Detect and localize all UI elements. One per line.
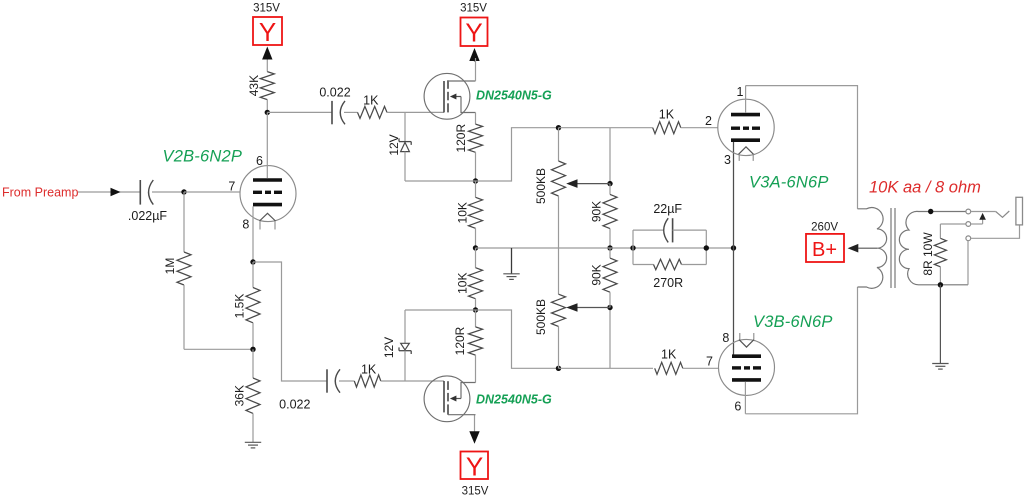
wire 1K to MOSFET gate (upper) — [387, 111, 444, 113]
mosfet U1 DN2540N5-G (upper) — [424, 73, 475, 119]
V2B pin 8 label — [242, 217, 249, 231]
label 90K (lower) — [590, 264, 604, 285]
label 22µF — [653, 202, 682, 216]
svg-text:Y: Y — [259, 17, 276, 47]
wire cap to 1K (upper) — [344, 111, 358, 113]
svg-text:6: 6 — [256, 154, 263, 168]
svg-text:315V: 315V — [253, 3, 280, 15]
V3B grid — [732, 366, 761, 369]
svg-text:120R: 120R — [454, 124, 468, 153]
resistor 1M — [177, 192, 191, 349]
V2B anode plate — [253, 178, 282, 182]
resistor 43K — [260, 72, 274, 113]
junction input node — [181, 189, 186, 194]
transformer primary winding — [858, 208, 887, 289]
label 12V (upper) — [387, 134, 401, 155]
jack tip contact — [971, 211, 1010, 217]
jack terminal 3 (sleeve) — [966, 236, 971, 241]
svg-text:90K: 90K — [590, 201, 604, 222]
label 1K (V3B grid) — [661, 348, 677, 362]
svg-text:From Preamp: From Preamp — [2, 186, 78, 200]
label V3A-6N6P — [749, 173, 829, 191]
svg-text:315V: 315V — [462, 486, 489, 498]
zener diode 12V (upper) — [399, 112, 411, 181]
svg-text:8R 10W: 8R 10W — [921, 232, 935, 276]
triode V3B envelope — [719, 339, 775, 395]
svg-text:7: 7 — [706, 354, 713, 368]
arrow to 315V rail (top-middle) — [469, 48, 479, 62]
svg-text:22µF: 22µF — [653, 202, 682, 216]
wire cap to grid junction — [152, 191, 184, 193]
wire V2B pin 6 (anode) up — [266, 112, 268, 178]
svg-text:1K: 1K — [659, 107, 675, 121]
junction source bias node (lower) — [473, 307, 478, 312]
junction source bias node (upper) — [473, 178, 478, 183]
ground (output) — [932, 285, 948, 369]
arrow to 315V rail (top-left) — [262, 47, 272, 72]
svg-text:10K: 10K — [456, 273, 470, 294]
V3A pin 3 label — [724, 153, 731, 167]
svg-text:90K: 90K — [590, 264, 604, 285]
wire to V3B pin 7 — [683, 367, 719, 369]
svg-text:Y: Y — [465, 18, 482, 48]
mosfet U2 DN2540N5-G (lower) — [424, 376, 475, 422]
V3A grid — [731, 126, 760, 129]
capacitor 22µF — [633, 218, 706, 242]
svg-text:Y: Y — [466, 452, 483, 482]
V2B grid — [253, 191, 282, 194]
resistor 1.5K — [246, 262, 260, 349]
svg-text:1M: 1M — [163, 258, 177, 275]
svg-text:2: 2 — [705, 114, 712, 128]
V2B pin 6 label — [256, 154, 263, 168]
junction pot bottom — [556, 366, 561, 371]
svg-text:12V: 12V — [387, 134, 401, 155]
svg-text:8: 8 — [242, 217, 249, 231]
wire bias node to pot (upper) — [405, 128, 559, 181]
svg-text:3: 3 — [724, 153, 731, 167]
triode V3A envelope — [718, 99, 774, 155]
jack terminal 1 (tip) — [966, 209, 971, 214]
jack body — [1016, 197, 1023, 225]
wire cathode line V3A-V3B — [733, 141, 735, 355]
arrow to 315V rail (bottom) — [469, 415, 479, 444]
capacitor 0.022 (upper) — [332, 101, 345, 124]
label From Preamp — [2, 186, 78, 200]
wire V3B anode to transformer — [745, 287, 857, 414]
V2B cathode — [253, 203, 282, 207]
resistor 90K (lower) — [603, 248, 617, 308]
wire cap to 1K (lower) — [339, 380, 354, 382]
power symbol Y 315V (bottom) — [461, 452, 489, 482]
V3B cathode — [732, 354, 761, 358]
resistor 270R — [633, 259, 706, 269]
wire V3A anode to transformer — [746, 86, 858, 209]
label 1K (V3A grid) — [659, 107, 675, 121]
svg-text:0.022: 0.022 — [279, 398, 310, 412]
junction wiper (lower) — [607, 305, 612, 310]
wire cathode to lower coupling cap — [253, 262, 327, 381]
power symbol B+ — [806, 234, 844, 262]
V3A anode plate — [731, 113, 760, 117]
junction chain/bus — [473, 245, 478, 250]
svg-text:7: 7 — [228, 179, 235, 193]
label 270R — [653, 276, 683, 290]
svg-text:36K: 36K — [233, 385, 247, 406]
wire V3B pin 6 (anode) — [744, 382, 746, 414]
resistor 1K (V3B grid) — [655, 362, 683, 374]
label 0.022 (upper) — [319, 85, 350, 99]
net label 315V (top-middle) — [460, 3, 487, 15]
svg-text:V3A-6N6P: V3A-6N6P — [749, 173, 829, 191]
wire anode node to coupling cap — [267, 111, 332, 113]
B+ center tap arrow — [848, 244, 877, 253]
svg-text:DN2540N5-G: DN2540N5-G — [476, 392, 552, 406]
label 1K (lower gate) — [361, 363, 377, 377]
svg-text:12V: 12V — [382, 337, 396, 358]
svg-text:B+: B+ — [812, 239, 837, 261]
V2B heater — [260, 213, 276, 229]
junction secondary top — [928, 209, 933, 214]
svg-text:500KB: 500KB — [534, 168, 548, 204]
label 260V — [811, 221, 838, 233]
junction pot top — [556, 125, 561, 130]
net label 315V (bottom) — [462, 486, 489, 498]
wire to V3A pin 2 — [681, 127, 718, 129]
label DN2540N5-G (upper) — [476, 88, 552, 102]
wire network right leg — [705, 230, 707, 264]
label 12V (lower) — [382, 337, 396, 358]
power symbol Y 315V (top-left) — [253, 17, 282, 47]
ground (36K) — [245, 442, 261, 448]
resistor 8R 10W — [934, 224, 966, 285]
resistor 120R (lower) — [469, 310, 483, 383]
V3A pin 2 label — [705, 114, 712, 128]
label 10K (upper) — [456, 202, 470, 223]
wire 1M to divider junction — [184, 348, 253, 350]
capacitor 0.022 (lower) — [327, 369, 340, 392]
wire V3A pin 1 (anode) — [745, 86, 747, 113]
wire V2B pin 8 (cathode) down — [252, 206, 254, 262]
svg-text:.022µF: .022µF — [128, 209, 168, 223]
svg-text:1.5K: 1.5K — [233, 294, 247, 319]
transformer core — [891, 208, 895, 288]
wire network left leg — [632, 230, 634, 264]
junction V2B anode node — [265, 110, 270, 115]
wire jack sleeve — [971, 225, 1020, 238]
label 10K (lower) — [456, 273, 470, 294]
svg-text:315V: 315V — [460, 3, 487, 15]
label .022µF — [128, 209, 168, 223]
label 500KB (upper) — [534, 168, 548, 204]
label 120R (upper) — [454, 124, 468, 153]
svg-text:6: 6 — [734, 399, 741, 413]
potentiometer 500KB (upper) — [552, 128, 611, 248]
label 1.5K — [233, 294, 247, 319]
junction wiper (upper) — [607, 181, 612, 186]
label DN2540N5-G (lower) — [476, 392, 552, 406]
resistor 10K (lower) — [469, 248, 483, 310]
resistor 1K (upper gate stopper) — [358, 106, 388, 118]
wire ground bus — [476, 247, 734, 249]
label V3B-6N6P — [753, 313, 833, 331]
resistor 10K (upper) — [469, 181, 483, 248]
V3A pin 1 label — [737, 85, 744, 99]
junction network left — [630, 245, 635, 250]
V2B pin 7 label — [228, 179, 235, 193]
label 500KB (lower) — [534, 299, 548, 335]
junction 90K at bus — [607, 245, 612, 250]
resistor 120R (upper) — [469, 113, 483, 182]
resistor 36K — [246, 349, 260, 442]
V3A cathode — [731, 138, 760, 142]
net label 315V (top-left) — [253, 3, 280, 15]
label 0.022 (lower) — [279, 398, 310, 412]
svg-text:1K: 1K — [661, 348, 677, 362]
wire bias node to pot (lower) — [405, 310, 559, 368]
svg-text:1: 1 — [737, 85, 744, 99]
label 8R 10W — [921, 232, 935, 276]
junction V2B cathode node — [250, 259, 255, 264]
junction secondary bottom — [938, 282, 943, 287]
svg-text:43K: 43K — [247, 75, 261, 96]
resistor 1K (lower gate stopper) — [354, 375, 381, 387]
wire pot bottom to 1K (V3B grid feed) — [559, 367, 654, 369]
label 43K — [247, 75, 261, 96]
wire pot top to 1K (V3A grid feed) — [559, 127, 653, 129]
wire input — [78, 191, 140, 193]
jack terminal 2 (switch) — [966, 222, 971, 227]
potentiometer 500KB (lower) — [552, 248, 611, 368]
transformer secondary winding — [899, 211, 968, 284]
V3B pin 8 label — [722, 331, 729, 345]
svg-text:120R: 120R — [453, 326, 467, 355]
jack switch contact arrow — [971, 213, 986, 224]
label V2B-6N2P — [163, 147, 243, 165]
wire 1K to MOSFET gate (lower) — [381, 380, 444, 382]
label 36K — [233, 385, 247, 406]
capacitor C-in .022uF — [140, 180, 153, 205]
label 90K (upper) — [590, 201, 604, 222]
wire wiper riser (upper) — [609, 128, 611, 184]
zener diode 12V (lower) — [399, 310, 411, 381]
label 120R (lower) — [453, 326, 467, 355]
junction divider node — [250, 347, 255, 352]
label 1M — [163, 258, 177, 275]
svg-text:270R: 270R — [653, 276, 683, 290]
wire to V2B pin 7 — [184, 191, 240, 193]
svg-text:V2B-6N2P: V2B-6N2P — [163, 147, 243, 165]
signal-flow arrow (input) — [111, 188, 121, 197]
wire wiper dropper (lower) — [609, 308, 611, 369]
wire drain to 315V arrow (upper) — [475, 58, 477, 81]
svg-text:V3B-6N6P: V3B-6N6P — [753, 313, 833, 331]
resistor 90K (upper) — [603, 184, 617, 248]
V3B pin 6 label — [734, 399, 741, 413]
svg-text:10K aa / 8 ohm: 10K aa / 8 ohm — [869, 178, 981, 196]
label 1K (upper gate) — [363, 93, 379, 107]
resistor 1K (V3A grid) — [653, 122, 681, 134]
label 10K aa / 8 ohm — [869, 178, 981, 196]
svg-text:0.022: 0.022 — [319, 85, 350, 99]
junction network right — [704, 245, 709, 250]
svg-text:500KB: 500KB — [534, 299, 548, 335]
triode V2B envelope — [240, 166, 296, 222]
V3A heater — [739, 147, 754, 161]
svg-text:1K: 1K — [361, 363, 377, 377]
svg-text:DN2540N5-G: DN2540N5-G — [476, 88, 552, 102]
junction cathode line at bus — [731, 245, 736, 250]
wire secondary bottom to jack sleeve — [967, 241, 969, 285]
svg-text:260V: 260V — [811, 221, 838, 233]
V3B heater — [739, 333, 754, 347]
svg-text:1K: 1K — [363, 93, 379, 107]
power symbol Y 315V (top-middle) — [461, 18, 488, 48]
ground (bus) — [503, 248, 519, 279]
svg-text:8: 8 — [722, 331, 729, 345]
V3B pin 7 label — [706, 354, 713, 368]
V3B anode plate — [732, 378, 761, 382]
svg-text:10K: 10K — [456, 202, 470, 223]
